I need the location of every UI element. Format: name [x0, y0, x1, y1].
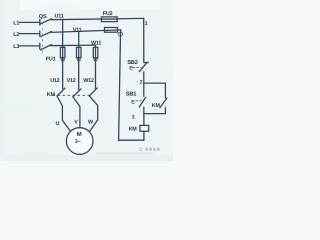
contactor KM main contact 2 blade [73, 89, 81, 97]
wire U11 drop [62, 20, 64, 48]
wire control line right drop (node 1 side) [143, 18, 145, 62]
svg-text:3: 3 [132, 114, 135, 120]
wire motor lead V [73, 97, 80, 128]
svg-text:1: 1 [145, 21, 148, 27]
wire FU1 column 3 through fuse to contact [95, 47, 97, 88]
wire phase-2 bus to FU2 [51, 30, 121, 33]
wire motor lead U [57, 96, 71, 132]
switch QS pole 1 blade [40, 19, 51, 24]
svg-text:W11: W11 [91, 40, 101, 46]
wire phase-3 bus [51, 44, 96, 47]
svg-text:U12: U12 [50, 78, 59, 84]
wire KM aux branch bottom [144, 108, 166, 114]
node L3 terminal bar [39, 43, 41, 49]
svg-text:L2: L2 [13, 32, 19, 38]
svg-text:L3: L3 [13, 44, 19, 50]
fuse FU1-3 body [93, 47, 98, 57]
svg-text:L1: L1 [13, 21, 19, 27]
svg-text:QS: QS [39, 14, 47, 20]
svg-text:V12: V12 [67, 78, 76, 84]
svg-text:2: 2 [140, 80, 143, 86]
svg-text:V11: V11 [73, 27, 82, 33]
wire SB2 to node 2 to SB1 [143, 72, 145, 96]
background paper [0, 0, 173, 161]
svg-text:FU1: FU1 [46, 57, 56, 63]
pushbutton SB1 blade [139, 97, 146, 107]
contactor KM main contact 1 blade [57, 88, 65, 96]
wire L2 lead [20, 33, 40, 35]
terminal circle control neutral [119, 32, 123, 36]
watermark bottom right [139, 148, 160, 151]
terminal circle under FU1-2 [77, 58, 80, 61]
wire SB1 to node 3 to coil [143, 107, 145, 125]
node L1 terminal bar [39, 20, 41, 26]
svg-text:W12: W12 [83, 78, 94, 84]
svg-text:FU2: FU2 [103, 11, 113, 17]
contactor KM main linkage (dashed) [53, 94, 90, 96]
switch QS linkage (dashed) [41, 23, 43, 54]
fuse FU1-1 body [60, 47, 65, 57]
coil KM body [140, 125, 149, 131]
wire L3 lead [20, 45, 40, 47]
wire phase-1 bus to FU2 [51, 18, 144, 19]
wire control neutral drop from FU2-2 [119, 30, 121, 140]
wire V11 drop [78, 31, 80, 47]
switch QS pole 2 blade [40, 32, 51, 37]
wire FU1 column 1 through fuse to contact [62, 47, 64, 88]
wire KM aux branch top [144, 83, 166, 98]
fuse FU2-1 body [101, 17, 117, 22]
contactor KM main contact 3 blade [89, 88, 97, 96]
fuse FU1-2 body [77, 47, 82, 57]
svg-text:KM: KM [47, 92, 56, 98]
wire bottom rail [119, 139, 144, 141]
switch QS pole 3 blade [40, 45, 51, 50]
pushbutton SB2 seat tick [144, 62, 148, 64]
wire L1 lead [20, 21, 40, 23]
pushbutton SB1 actuator link (dashed) [136, 100, 142, 102]
faint watermark smudge [95, 153, 155, 155]
terminal circle under FU1-3 [94, 58, 97, 61]
svg-text:SB1: SB1 [126, 91, 137, 97]
svg-text:KM: KM [152, 103, 161, 109]
terminal circle under FU1-1 [61, 58, 64, 61]
svg-text:V: V [74, 120, 78, 126]
svg-text:U11: U11 [55, 14, 64, 20]
svg-text:3~: 3~ [75, 139, 81, 145]
svg-text:U: U [56, 121, 60, 127]
motor M 3-phase body [66, 128, 93, 155]
wire FU1 column 2 through fuse to contact [78, 47, 80, 89]
wire W11 drop [95, 45, 97, 47]
svg-text:M: M [77, 131, 82, 138]
svg-text:KM: KM [129, 126, 138, 132]
fuse FU2-2 body [105, 28, 118, 33]
pushbutton SB2 actuator link (dashed) [133, 67, 142, 69]
wire coil to bottom rail [143, 131, 145, 140]
contact KM aux blade [160, 98, 167, 108]
node L2 terminal bar [39, 31, 41, 37]
pushbutton SB2 blade [139, 62, 147, 71]
wire motor lead W [89, 96, 97, 132]
